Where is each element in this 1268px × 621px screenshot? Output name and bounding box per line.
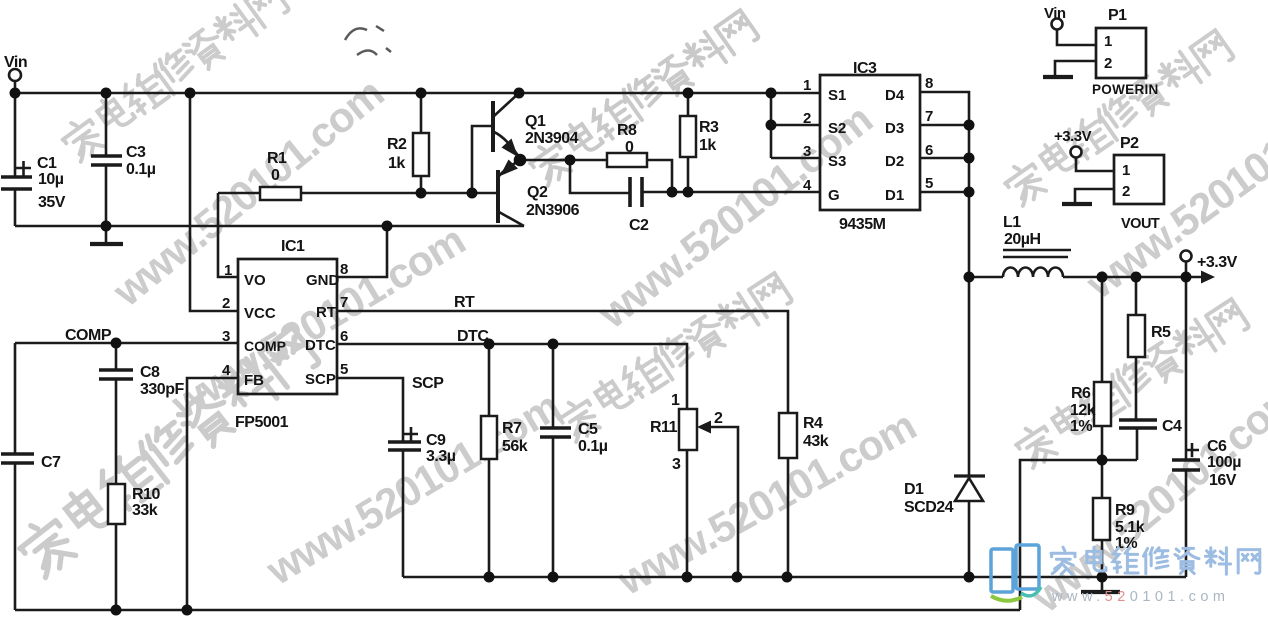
svg-text:C7: C7 <box>41 454 61 471</box>
svg-text:56k: 56k <box>502 438 528 455</box>
svg-text:R5: R5 <box>1151 324 1171 341</box>
svg-text:10µ: 10µ <box>38 171 64 188</box>
svg-text:6: 6 <box>925 142 933 159</box>
svg-text:POWERIN: POWERIN <box>1092 82 1159 97</box>
svg-text:43k: 43k <box>803 433 829 450</box>
svg-text:C6: C6 <box>1207 438 1227 455</box>
svg-text:www.520101.com: www.520101.com <box>258 382 568 594</box>
svg-text:8: 8 <box>340 261 348 278</box>
svg-text:P1: P1 <box>1108 7 1127 24</box>
svg-text:D1: D1 <box>904 481 924 498</box>
svg-text:1k: 1k <box>388 155 405 172</box>
svg-text:SCP: SCP <box>412 375 444 392</box>
svg-text:3: 3 <box>803 143 811 160</box>
svg-text:D3: D3 <box>885 120 904 137</box>
svg-text:C5: C5 <box>578 421 598 438</box>
svg-text:33k: 33k <box>132 502 158 519</box>
svg-text:8: 8 <box>925 75 933 92</box>
svg-text:FB: FB <box>244 372 264 389</box>
svg-text:1: 1 <box>224 262 232 279</box>
svg-text:R6: R6 <box>1071 385 1091 402</box>
svg-text:7: 7 <box>340 294 348 311</box>
svg-text:100µ: 100µ <box>1207 454 1241 471</box>
svg-text:6: 6 <box>340 328 348 345</box>
svg-text:2: 2 <box>1122 183 1130 200</box>
svg-text:S1: S1 <box>828 87 846 104</box>
svg-text:D4: D4 <box>885 87 905 104</box>
svg-text:DTC: DTC <box>305 337 336 354</box>
svg-text:+3.3V: +3.3V <box>1197 254 1238 271</box>
svg-text:35V: 35V <box>38 194 66 211</box>
svg-text:R1: R1 <box>267 150 287 167</box>
svg-text:7: 7 <box>925 108 933 125</box>
svg-text:5: 5 <box>925 175 933 192</box>
svg-text:GND: GND <box>306 272 340 289</box>
svg-text:SCP: SCP <box>305 371 336 388</box>
svg-text:C9: C9 <box>426 432 446 449</box>
svg-text:2N3904: 2N3904 <box>525 130 579 147</box>
svg-text:0: 0 <box>625 139 634 156</box>
svg-text:12k: 12k <box>1070 402 1096 419</box>
svg-text:4: 4 <box>803 177 812 194</box>
svg-text:VOUT: VOUT <box>1121 216 1160 232</box>
svg-text:2: 2 <box>803 110 811 127</box>
svg-text:IC1: IC1 <box>281 238 305 255</box>
svg-text:Vin: Vin <box>4 54 27 71</box>
svg-text:D2: D2 <box>885 153 904 170</box>
svg-text:R4: R4 <box>803 415 823 432</box>
svg-text:R10: R10 <box>132 486 160 503</box>
svg-text:RT: RT <box>454 294 475 311</box>
svg-text:DTC: DTC <box>457 328 489 345</box>
svg-text:20µH: 20µH <box>1004 231 1041 248</box>
svg-text:5.1k: 5.1k <box>1115 519 1145 536</box>
svg-text:S2: S2 <box>828 120 846 137</box>
svg-text:1k: 1k <box>699 137 716 154</box>
svg-text:D1: D1 <box>885 187 904 204</box>
svg-text:1: 1 <box>803 77 811 94</box>
svg-text:R9: R9 <box>1115 502 1135 519</box>
svg-text:1%: 1% <box>1070 418 1092 435</box>
svg-text:1: 1 <box>1122 162 1130 179</box>
svg-text:3.3µ: 3.3µ <box>426 448 456 465</box>
svg-text:R3: R3 <box>699 119 719 136</box>
svg-text:C3: C3 <box>126 144 146 161</box>
svg-text:VO: VO <box>244 272 266 289</box>
svg-text:L1: L1 <box>1003 214 1021 231</box>
svg-text:9435M: 9435M <box>839 216 886 233</box>
svg-text:IC3: IC3 <box>853 60 877 77</box>
svg-text:FP5001: FP5001 <box>235 414 289 431</box>
svg-text:1: 1 <box>671 392 680 409</box>
svg-text:RT: RT <box>316 304 336 321</box>
svg-text:Vin: Vin <box>1044 5 1066 22</box>
svg-text:0.1µ: 0.1µ <box>578 438 608 455</box>
svg-text:www.520101.com: www.520101.com <box>1051 589 1229 605</box>
svg-text:VCC: VCC <box>244 305 276 322</box>
svg-text:C1: C1 <box>37 155 57 172</box>
svg-text:R2: R2 <box>387 136 407 153</box>
svg-text:C4: C4 <box>1162 418 1182 435</box>
svg-text:330pF: 330pF <box>140 381 184 398</box>
svg-text:P2: P2 <box>1120 135 1139 152</box>
svg-text:5: 5 <box>340 361 348 378</box>
svg-text:3: 3 <box>222 328 230 345</box>
svg-text:SCD24: SCD24 <box>904 499 954 516</box>
svg-text:2: 2 <box>1104 55 1112 72</box>
svg-text:0.1µ: 0.1µ <box>126 161 156 178</box>
svg-text:R7: R7 <box>502 420 522 437</box>
svg-text:R8: R8 <box>617 122 637 139</box>
svg-text:16V: 16V <box>1209 472 1237 489</box>
svg-text:1: 1 <box>1104 33 1112 50</box>
svg-text:3: 3 <box>672 456 681 473</box>
svg-text:4: 4 <box>222 362 231 379</box>
svg-text:2: 2 <box>222 295 230 312</box>
svg-text:S3: S3 <box>828 153 846 170</box>
svg-text:G: G <box>828 187 840 204</box>
svg-text:Q2: Q2 <box>527 184 548 201</box>
svg-text:C8: C8 <box>140 364 160 381</box>
svg-text:C2: C2 <box>629 217 649 234</box>
svg-text:2: 2 <box>714 410 723 427</box>
svg-text:COMP: COMP <box>65 327 112 344</box>
svg-text:2N3906: 2N3906 <box>526 202 580 219</box>
svg-text:COMP: COMP <box>244 338 286 354</box>
svg-text:+3.3V: +3.3V <box>1054 128 1092 145</box>
svg-text:Q1: Q1 <box>525 113 546 130</box>
svg-text:R11: R11 <box>650 419 678 436</box>
svg-text:0: 0 <box>271 167 280 184</box>
